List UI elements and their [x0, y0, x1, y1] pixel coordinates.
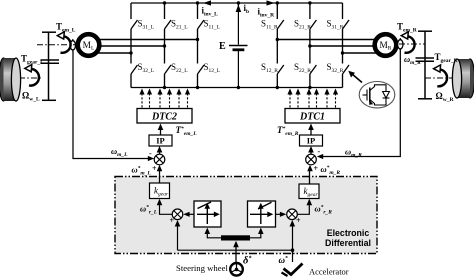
svg-text:IP: IP — [307, 136, 316, 146]
svg-text:+: + — [170, 216, 175, 225]
svg-text:-: - — [149, 149, 152, 158]
svg-text:+: + — [296, 216, 301, 225]
svg-text:+: + — [152, 164, 157, 173]
svg-text:IP: IP — [156, 136, 165, 146]
svg-text:Accelerator: Accelerator — [309, 267, 349, 277]
svg-text:Steering wheel: Steering wheel — [176, 263, 228, 273]
svg-text:Differential: Differential — [325, 238, 371, 248]
svg-text:DTC1: DTC1 — [299, 112, 325, 123]
svg-text:-: - — [318, 147, 321, 156]
svg-text:DTC2: DTC2 — [151, 112, 177, 123]
svg-text:E: E — [219, 41, 226, 52]
svg-text:+: + — [314, 164, 319, 173]
svg-text:Electronic: Electronic — [327, 228, 370, 238]
